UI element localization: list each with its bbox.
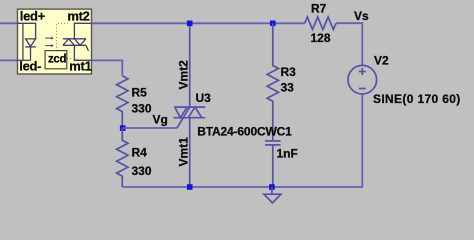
- value 1nF (C1): [277, 147, 298, 161]
- svg-text:R5: R5: [132, 86, 148, 100]
- svg-text:zcd: zcd: [48, 54, 66, 66]
- svg-text:U3: U3: [196, 91, 212, 105]
- pin label mt2: [67, 9, 89, 24]
- value 330 (R4): [132, 164, 152, 178]
- wire led+ from left edge: [0, 22, 18, 24]
- resistor R7: [305, 17, 336, 30]
- voltage source V2: [348, 65, 377, 94]
- wire Vg to gate: [123, 127, 177, 129]
- resistor R3: [267, 23, 278, 141]
- svg-text:V2: V2: [374, 54, 389, 68]
- value 33 (R3): [281, 81, 295, 95]
- capacitor C1 1nF: [265, 141, 281, 187]
- label Vg: [153, 113, 168, 127]
- svg-text:Vs: Vs: [354, 9, 369, 23]
- wire led- from left edge: [0, 59, 18, 61]
- wire V2 down and bottom rail: [122, 94, 362, 187]
- zcd block: [45, 51, 67, 69]
- resistor R5: [117, 76, 128, 128]
- label R5: [132, 86, 148, 100]
- svg-text:33: 33: [281, 81, 295, 95]
- node junction top-left (Vmt2 rail): [187, 21, 193, 27]
- label Vmt2 (rotated): [177, 60, 191, 90]
- svg-text:SINE(0 170 60): SINE(0 170 60): [373, 92, 461, 106]
- node Vg junction: [120, 125, 126, 131]
- svg-text:Vmt2: Vmt2: [177, 60, 191, 90]
- label U3: [196, 91, 212, 105]
- dotted boundary around opto triac: [57, 23, 79, 59]
- label R4: [132, 146, 148, 160]
- svg-text:mt2: mt2: [67, 9, 89, 24]
- LED D1 inside opto: [18, 23, 36, 60]
- value 330 (R5): [132, 102, 152, 116]
- value 128 (R7): [311, 31, 331, 45]
- ground: [264, 187, 281, 203]
- pin label mt1: [69, 58, 91, 73]
- svg-text:128: 128: [311, 31, 331, 45]
- wire mt1 to R5: [92, 60, 123, 75]
- label R7: [311, 2, 327, 16]
- pin label led+: [20, 9, 46, 24]
- triac U3: [174, 23, 206, 187]
- svg-text:330: 330: [132, 102, 152, 116]
- node junction top-right (R3 tap): [270, 21, 276, 27]
- svg-text:Vmt1: Vmt1: [177, 137, 191, 167]
- label SINE(0 170 60): [373, 92, 461, 106]
- opto-triac body (yellow box): [18, 9, 92, 74]
- svg-text:R4: R4: [132, 146, 148, 160]
- pin label led-: [19, 58, 41, 73]
- node junction bottom (cap/ground): [269, 184, 275, 190]
- label R3: [281, 65, 297, 79]
- svg-text:led+: led+: [20, 9, 46, 24]
- label BTA24-600CWC1: [197, 124, 292, 138]
- label Vmt1 (rotated): [177, 137, 191, 167]
- resistor R4: [117, 128, 128, 187]
- wire R7 to Vs corner: [336, 23, 362, 65]
- svg-text:R7: R7: [311, 2, 327, 16]
- label Vs: [354, 9, 369, 23]
- node junction bottom (triac): [187, 184, 193, 190]
- label V2: [374, 54, 389, 68]
- light arrows from LED to triac: [45, 37, 54, 47]
- svg-text:1nF: 1nF: [277, 147, 298, 161]
- opto internal triac: [63, 23, 92, 60]
- svg-text:R3: R3: [281, 65, 297, 79]
- svg-text:330: 330: [132, 164, 152, 178]
- svg-text:Vg: Vg: [153, 113, 168, 127]
- wire mt2 to top rail: [92, 22, 305, 24]
- svg-text:BTA24-600CWC1: BTA24-600CWC1: [197, 124, 292, 138]
